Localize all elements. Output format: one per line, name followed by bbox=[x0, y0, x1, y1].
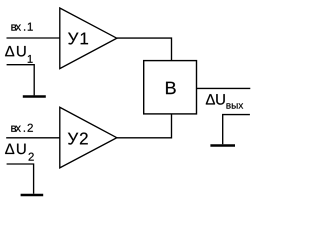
ground GND3 bbox=[210, 144, 235, 147]
op-amp У1 bbox=[60, 8, 117, 69]
label У2 letter bbox=[68, 133, 78, 145]
label У2 digit bbox=[80, 133, 88, 145]
wire У2 output to B bbox=[117, 114, 172, 138]
label У1 letter bbox=[68, 33, 78, 45]
ground GND2 bbox=[21, 194, 44, 197]
label У1 digit bbox=[81, 33, 88, 45]
label вх.2 bbox=[11, 124, 33, 132]
ground GND1 bbox=[23, 95, 46, 98]
label В bbox=[166, 82, 176, 94]
op-amp У2 bbox=[60, 107, 117, 168]
wire ΔU1 to ground bbox=[7, 65, 35, 96]
wire input 2 bbox=[6, 137, 60, 139]
label ΔUвых bbox=[206, 94, 225, 104]
label ΔU1 bbox=[5, 46, 25, 56]
wire У1 output to B bbox=[117, 38, 172, 61]
wire input 1 bbox=[7, 37, 60, 39]
wire output return to ground bbox=[223, 115, 250, 145]
label вх.1 bbox=[11, 23, 32, 31]
subscript 1 of ΔU1 bbox=[28, 55, 33, 63]
block B bbox=[144, 61, 197, 114]
wire ΔU2 to ground bbox=[7, 164, 34, 194]
wire output bbox=[197, 87, 251, 89]
subscript 2 of ΔU2 bbox=[29, 153, 34, 161]
label ΔU2 bbox=[5, 144, 25, 154]
subscript вых bbox=[226, 103, 243, 108]
